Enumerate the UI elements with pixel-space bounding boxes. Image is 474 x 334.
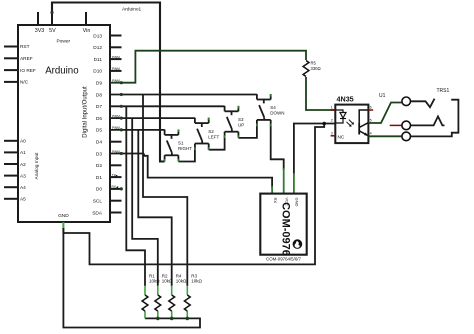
svg-text:Arduino: Arduino <box>45 66 78 77</box>
svg-text:3: 3 <box>331 131 333 135</box>
svg-text:VCC: VCC <box>285 198 290 207</box>
svg-text:LEFT: LEFT <box>208 134 219 139</box>
svg-text:Analog Input: Analog Input <box>34 152 40 180</box>
svg-text:GND: GND <box>58 213 69 219</box>
svg-text:D7: D7 <box>96 104 102 110</box>
svg-text:SDA: SDA <box>92 210 103 216</box>
svg-text:5: 5 <box>370 119 372 123</box>
svg-text:IO REF: IO REF <box>20 68 36 74</box>
svg-text:4N35: 4N35 <box>337 95 354 104</box>
svg-text:RST: RST <box>20 44 30 50</box>
svg-text:D10: D10 <box>93 69 102 75</box>
svg-text:A0: A0 <box>20 139 26 145</box>
svg-text:AREF: AREF <box>20 56 33 62</box>
svg-text:PWM: PWM <box>112 55 120 59</box>
svg-text:A5: A5 <box>20 197 26 203</box>
svg-text:D9: D9 <box>96 81 102 87</box>
svg-text:Power: Power <box>56 39 70 45</box>
svg-text:10kΩ: 10kΩ <box>162 279 173 284</box>
svg-text:UP: UP <box>238 123 244 128</box>
svg-text:3V3: 3V3 <box>35 28 45 34</box>
svg-text:NC: NC <box>338 135 345 140</box>
svg-text:S1: S1 <box>178 141 184 146</box>
svg-text:GND: GND <box>295 198 300 207</box>
svg-text:PWM: PWM <box>112 67 120 71</box>
svg-text:D6: D6 <box>96 116 102 122</box>
svg-text:2: 2 <box>331 119 333 123</box>
svg-text:S3: S3 <box>238 117 244 122</box>
svg-text:D5: D5 <box>96 128 102 134</box>
svg-text:N/C: N/C <box>20 80 29 86</box>
svg-text:COM-09764/5/6/7: COM-09764/5/6/7 <box>266 257 301 262</box>
svg-text:R5: R5 <box>311 61 317 66</box>
svg-text:TRS1: TRS1 <box>437 88 450 94</box>
svg-text:Arduino1: Arduino1 <box>122 7 142 13</box>
svg-text:A4: A4 <box>20 185 26 191</box>
svg-text:U1: U1 <box>379 93 386 99</box>
svg-text:RX: RX <box>273 198 278 204</box>
svg-text:TX▶: TX▶ <box>112 173 119 177</box>
svg-text:D12: D12 <box>93 45 102 51</box>
svg-text:4: 4 <box>370 131 372 135</box>
svg-text:10kΩ: 10kΩ <box>149 279 160 284</box>
svg-text:Vin: Vin <box>83 28 91 34</box>
svg-text:1: 1 <box>331 106 333 110</box>
svg-text:D2: D2 <box>96 163 102 169</box>
svg-text:D4: D4 <box>96 140 102 146</box>
svg-text:D8: D8 <box>96 92 102 98</box>
svg-text:Digital Input/Output: Digital Input/Output <box>83 86 89 138</box>
svg-text:A2: A2 <box>20 162 26 168</box>
svg-text:330Ω: 330Ω <box>311 66 321 71</box>
svg-text:D13: D13 <box>93 33 102 39</box>
svg-text:A1: A1 <box>20 150 26 156</box>
svg-text:RX◀: RX◀ <box>112 185 119 189</box>
svg-text:S4: S4 <box>270 105 276 110</box>
svg-text:A3: A3 <box>20 173 26 179</box>
svg-text:D0: D0 <box>96 187 102 193</box>
svg-text:10kΩ: 10kΩ <box>191 279 202 284</box>
svg-text:S2: S2 <box>208 129 214 134</box>
svg-text:10kΩ: 10kΩ <box>176 279 187 284</box>
svg-text:RIGHT: RIGHT <box>178 146 192 151</box>
svg-text:D1: D1 <box>96 175 102 181</box>
svg-text:6: 6 <box>370 106 372 110</box>
svg-text:COM-0976: COM-0976 <box>280 202 292 256</box>
svg-text:D3: D3 <box>96 151 102 157</box>
svg-text:5V: 5V <box>49 28 56 34</box>
svg-text:SCL: SCL <box>93 199 103 205</box>
svg-text:D11: D11 <box>94 57 103 63</box>
svg-text:DOWN: DOWN <box>270 111 284 116</box>
